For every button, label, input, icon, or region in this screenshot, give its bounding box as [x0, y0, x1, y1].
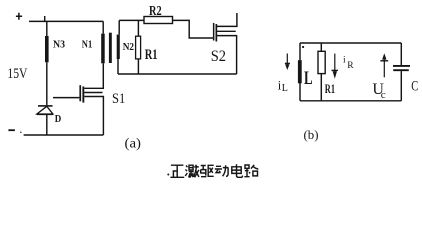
- wire R1 bottom lead: [137, 59, 139, 74]
- svg-text:S1: S1: [112, 91, 125, 107]
- svg-text:C: C: [411, 79, 418, 95]
- winding N1: [101, 34, 105, 64]
- svg-text:15V: 15V: [7, 66, 27, 82]
- svg-text:N1: N1: [82, 39, 92, 51]
- wire N3 branch upper: [46, 21, 48, 36]
- resistor R1 (b) bottom lead: [320, 74, 322, 101]
- transistor S1 gate lead: [53, 97, 79, 99]
- capacitor C bottom plate: [393, 69, 409, 71]
- svg-text:R2: R2: [149, 3, 162, 18]
- winding N3: [45, 36, 49, 62]
- svg-text:S2: S2: [211, 48, 226, 65]
- arrow iL: [286, 54, 288, 65]
- plus terminal: [16, 13, 22, 20]
- svg-text:N3: N3: [53, 39, 66, 51]
- S2 middle lead: [217, 30, 236, 32]
- circuit b bottom wire: [300, 100, 401, 102]
- node tick above top wire: [44, 16, 46, 21]
- circuit b top wire: [300, 42, 401, 44]
- wire top primary: [29, 20, 103, 22]
- transistor S2 channel bar: [216, 24, 218, 42]
- diode D: [38, 105, 53, 107]
- S1 middle lead: [84, 92, 102, 94]
- S2 source lead: [217, 36, 237, 74]
- transformer core: [109, 33, 112, 63]
- svg-text:D: D: [55, 113, 62, 125]
- svg-text:N2: N2: [123, 41, 134, 53]
- wire N3 to diode: [46, 62, 48, 105]
- S1 channel bar: [82, 87, 84, 103]
- resistor R2: [144, 17, 173, 24]
- svg-text:(b): (b): [304, 128, 319, 142]
- svg-text:c: c: [381, 89, 386, 101]
- resistor R1: [136, 36, 141, 59]
- S1 drain lead: [84, 63, 103, 88]
- 正: [170, 165, 184, 177]
- svg-text:L: L: [304, 69, 313, 89]
- resistor R1 (b): [318, 51, 325, 73]
- wire secondary top: [119, 19, 144, 21]
- 动: [215, 165, 229, 176]
- wire secondary bottom: [118, 73, 237, 75]
- S1 gate bar: [79, 85, 81, 101]
- minus terminal: [8, 129, 15, 131]
- wire R1 top lead: [137, 20, 139, 36]
- capacitor C top plate: [393, 65, 410, 67]
- wire R2 to S2 gate: [173, 20, 214, 38]
- svg-text:i: i: [343, 56, 346, 66]
- S1 source lead: [84, 97, 103, 136]
- winding N2: [117, 35, 120, 59]
- circuit b right wire upper: [400, 43, 402, 65]
- wire N1 branch upper: [102, 21, 104, 33]
- wire N2 top lead: [118, 20, 120, 34]
- arrow Uc: [383, 60, 385, 78]
- wire bottom primary: [24, 134, 104, 136]
- arrow iR: [334, 54, 336, 72]
- svg-text:L: L: [282, 83, 288, 94]
- wire N2 bottom lead: [117, 59, 119, 74]
- transistor S2 gate bar: [213, 23, 215, 41]
- circuit b left wire: [299, 43, 301, 101]
- svg-text:(a): (a): [125, 137, 142, 152]
- circuit b right wire lower: [400, 71, 402, 101]
- 电: [232, 164, 243, 177]
- resistor R1 (b) top lead: [320, 43, 322, 51]
- svg-text:R: R: [347, 61, 354, 71]
- 激: [185, 165, 199, 178]
- svg-text:R1: R1: [325, 81, 335, 96]
- S2 drain lead: [217, 13, 237, 26]
- svg-text:R1: R1: [145, 47, 158, 63]
- polarity dot: [302, 46, 304, 48]
- 路: [244, 165, 258, 177]
- inductor L bar: [298, 60, 302, 83]
- caption 正激驱动电路 (hand-drawn glyphs): [170, 164, 258, 177]
- caption dot: [167, 174, 169, 176]
- wire diode to bottom: [46, 114, 48, 135]
- 驱: [200, 165, 214, 176]
